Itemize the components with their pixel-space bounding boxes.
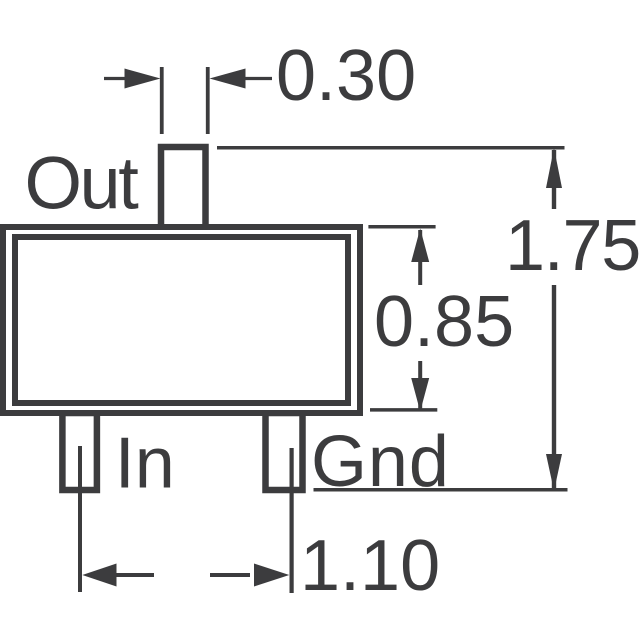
svg-text:1.75: 1.75	[505, 206, 640, 286]
1.75 down arrowhead	[546, 454, 562, 491]
1.75 up arrowhead	[546, 148, 562, 188]
svg-text:1.10: 1.10	[300, 526, 440, 606]
0.30 left arrowhead	[125, 69, 161, 89]
1.10 left arrowhead	[82, 564, 116, 587]
1.75 top extension line	[217, 146, 565, 150]
svg-text:0.30: 0.30	[276, 36, 416, 116]
extension line left of 0.30	[160, 67, 164, 134]
1.75 bottom extension line (Gnd underline)	[314, 488, 568, 492]
1.10 left arrow tail	[115, 573, 154, 577]
0.30 right arrowhead	[210, 69, 246, 89]
0.30 left arrow tail	[104, 77, 128, 80]
1.75 dimension line lower segment	[552, 285, 556, 489]
1.10 right arrowhead	[254, 564, 289, 587]
svg-text:Out: Out	[25, 142, 140, 225]
1.10 right extension line	[290, 448, 294, 593]
0.85 dimension line lower segment	[418, 361, 422, 410]
pin 3 top lead (Out)	[161, 147, 206, 230]
0.85 top extension line	[368, 225, 435, 229]
package body outer outline	[3, 227, 360, 413]
1.10 left extension line	[78, 446, 82, 592]
package body inner outline	[15, 237, 348, 403]
0.85 bottom extension line	[370, 408, 437, 412]
pin 2 bottom-right lead (Gnd)	[266, 413, 303, 490]
0.85 down arrowhead	[411, 378, 429, 412]
0.85 up arrowhead	[411, 229, 429, 263]
svg-text:0.85: 0.85	[374, 282, 514, 362]
1.10 right arrow tail	[210, 573, 250, 577]
pin 1 bottom-left lead (In)	[62, 413, 97, 490]
0.30 right arrow tail	[245, 77, 272, 80]
extension line right of 0.30	[206, 67, 210, 134]
1.75 dimension line upper segment	[552, 150, 556, 209]
0.85 dimension line upper segment	[418, 230, 422, 285]
svg-text:In: In	[115, 424, 175, 504]
svg-text:Gnd: Gnd	[311, 422, 450, 502]
